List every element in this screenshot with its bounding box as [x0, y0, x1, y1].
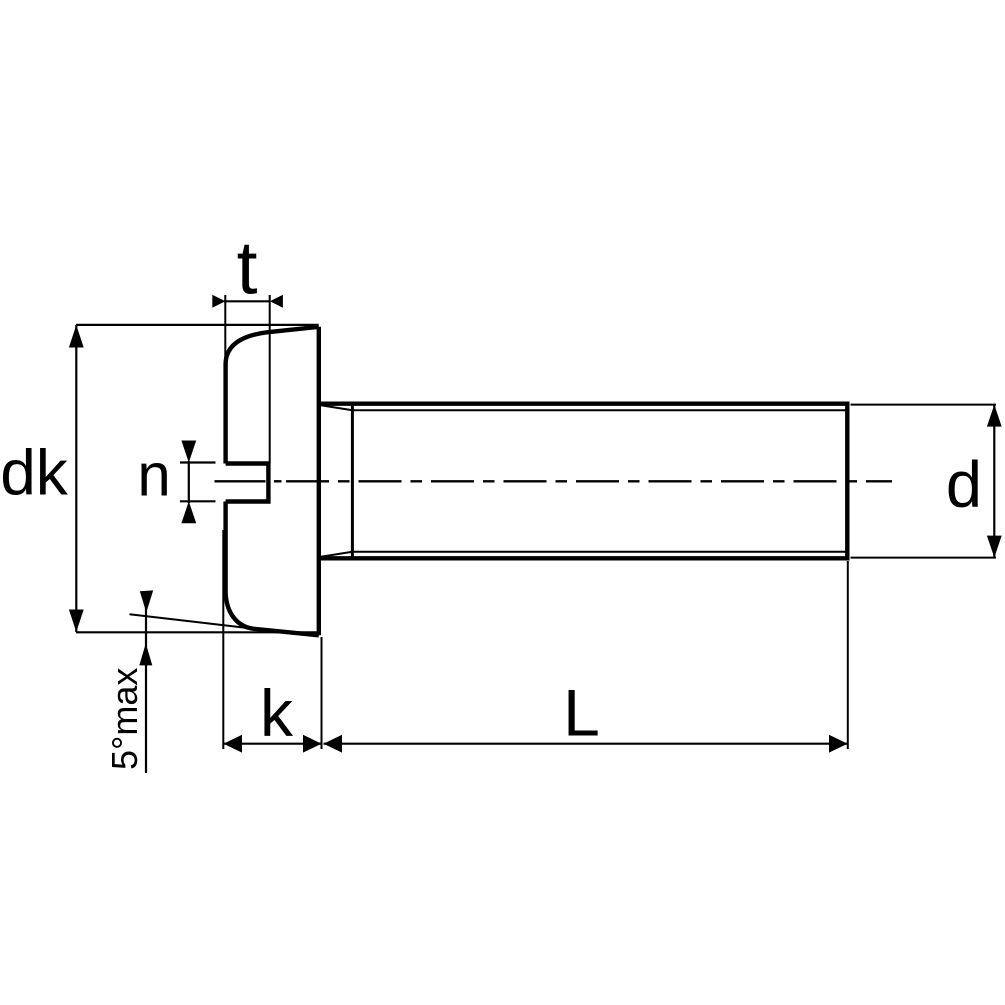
svg-text:L: L: [563, 676, 600, 750]
svg-text:d: d: [946, 448, 982, 521]
k extension line right: [321, 637, 323, 749]
d arrow up: [987, 405, 1002, 427]
dimension t: left arrow: [212, 295, 225, 308]
t extension line left: [224, 295, 226, 362]
t extension line right: [269, 295, 271, 463]
n extension line bottom: [180, 500, 216, 502]
5 deg taper line: [130, 614, 254, 628]
angle arrow bottom (pointing up, tip at 643.4): [139, 643, 152, 665]
thread minor line bottom: [352, 551, 845, 553]
k arrow left (tip at 223.5 pointing left): [224, 735, 243, 753]
shank top edge: [320, 402, 848, 406]
dimension t: line: [224, 300, 271, 302]
dk dimension line: [75, 325, 77, 632]
L arrow right (tip at 847.5 pointing right): [829, 735, 848, 753]
svg-text:dk: dk: [0, 437, 69, 509]
thread runout diagonal top: [321, 405, 353, 410]
dimension t: right arrow: [270, 295, 283, 308]
screw head outline lower part: [226, 502, 319, 636]
slot notch: [226, 464, 269, 502]
dk arrow up: [69, 325, 84, 348]
d dimension line: [993, 405, 995, 558]
angle arrow top (pointing down, tip at 612.5): [140, 590, 153, 612]
shank bottom edge: [320, 556, 848, 560]
svg-text:n: n: [137, 442, 170, 509]
k arrow right (tip at 321.5 pointing right): [303, 735, 322, 753]
dk extension line top: [76, 324, 319, 326]
k extension line left: [222, 530, 224, 749]
d arrow down: [987, 536, 1002, 558]
screw head right face: [317, 327, 321, 636]
L dimension line: [324, 743, 848, 745]
shank right end: [845, 402, 849, 561]
dk extension line bottom: [76, 631, 321, 633]
L arrow left (tip at 323.5 pointing left): [324, 735, 343, 753]
thread runout vertical: [351, 404, 354, 559]
L extension line right: [847, 561, 849, 749]
dk arrow down: [69, 610, 84, 633]
k dimension line: [224, 743, 322, 745]
thread minor line top: [352, 409, 845, 411]
screw head outline upper part: [226, 327, 319, 464]
n arrow bottom (pointing up to tip 501.3): [181, 501, 196, 523]
svg-text:5°max: 5°max: [104, 668, 145, 770]
center line: [215, 480, 266, 482]
n dimension line: [188, 461, 190, 503]
svg-text:k: k: [260, 676, 294, 750]
thread runout diagonal bottom: [321, 552, 353, 557]
angle dimension line vertical: [145, 593, 147, 774]
n extension line top: [180, 461, 216, 463]
d extension line top: [851, 404, 997, 406]
d extension line bottom: [851, 557, 997, 559]
center line dot: [274, 480, 282, 482]
center line dashed part: [286, 480, 892, 482]
svg-text:t: t: [237, 226, 258, 310]
n arrow top (pointing down to tip 462.5): [181, 441, 196, 463]
